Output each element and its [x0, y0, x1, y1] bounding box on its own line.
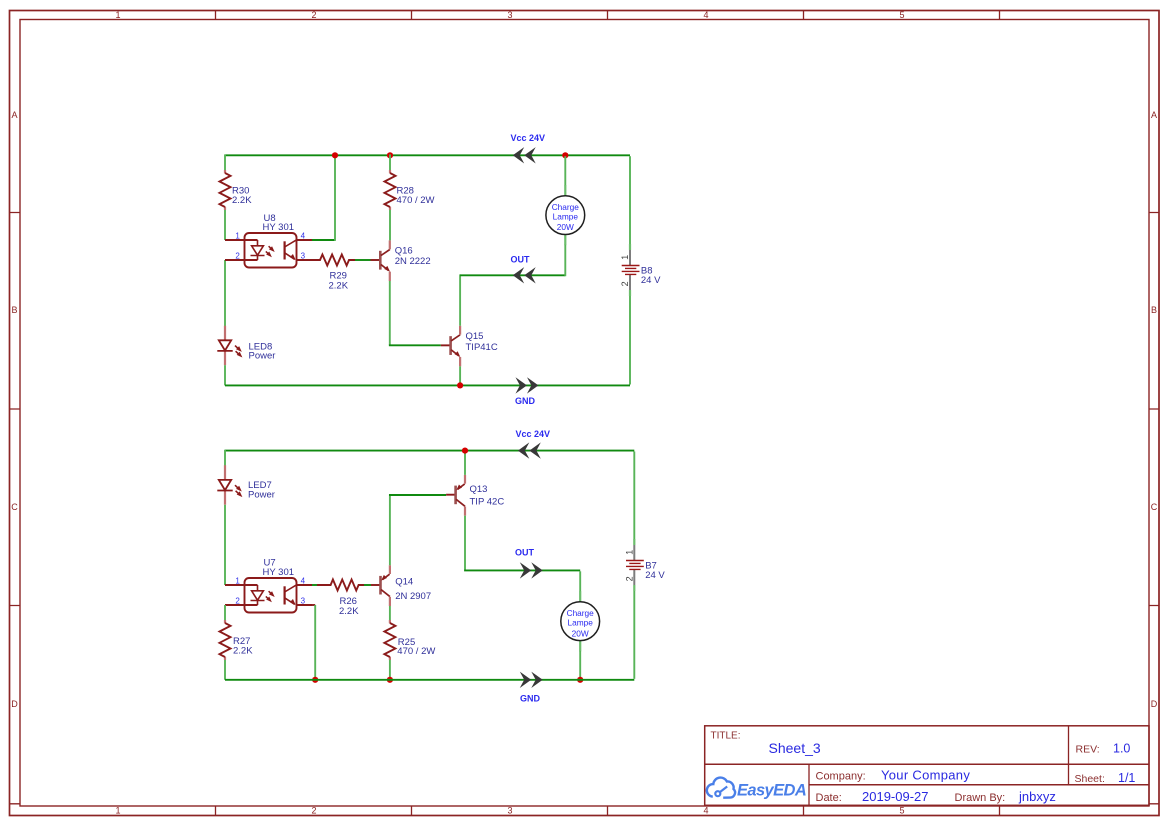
- label Q13 TIP 42C: [470, 484, 505, 507]
- resistor R29: [297, 255, 356, 266]
- transistor Q16 2N 2222: [371, 240, 391, 281]
- svg-text:24 V: 24 V: [645, 570, 665, 581]
- svg-text:Sheet_3: Sheet_3: [769, 740, 821, 756]
- wire node OUT horizontal: [460, 274, 565, 276]
- lamp Charge Lampe 20W: [546, 185, 585, 245]
- wire U7 pin3 branch: [312, 605, 315, 680]
- label U7 HY 301: [263, 558, 295, 579]
- svg-text:HY 301: HY 301: [263, 222, 295, 233]
- svg-text:2: 2: [311, 806, 316, 816]
- svg-text:Vcc 24V: Vcc 24V: [516, 429, 551, 439]
- battery B7: [625, 545, 644, 585]
- value label R25 470 / 2W: [397, 637, 435, 657]
- junction R28 rail: [387, 152, 393, 158]
- wire Q13 emitter to rail: [464, 450, 466, 475]
- wire stub light green bottom B8: [629, 290, 631, 296]
- junction lamp rail: [577, 677, 583, 683]
- wire LED7 to U7 pin1: [224, 505, 226, 585]
- svg-text:Vcc 24V: Vcc 24V: [511, 133, 546, 143]
- svg-text:Lampe: Lampe: [553, 212, 579, 222]
- junction pin4 rail: [332, 152, 338, 158]
- svg-text:1.0: 1.0: [1113, 742, 1130, 756]
- net flag OUT: [511, 254, 536, 283]
- svg-text:20W: 20W: [557, 222, 574, 232]
- svg-text:OUT: OUT: [515, 548, 535, 558]
- svg-text:Q15: Q15: [466, 331, 484, 342]
- wire Q14 collector to R25: [389, 606, 391, 620]
- svg-text:C: C: [1151, 502, 1158, 512]
- label LED8 Power: [249, 342, 276, 362]
- svg-text:24 V: 24 V: [641, 275, 661, 286]
- svg-text:Lampe: Lampe: [568, 618, 594, 628]
- net flag Vcc 24V (bottom): [516, 429, 551, 459]
- resistor R26: [317, 580, 364, 591]
- label Q14 2N 2907: [395, 576, 431, 602]
- wire U7 pin4 to R26: [312, 584, 317, 586]
- svg-text:B: B: [11, 305, 17, 315]
- wire lamp to OUT: [564, 245, 566, 276]
- wire Q13 collector to OUT: [464, 516, 580, 571]
- svg-text:TIP41C: TIP41C: [466, 342, 498, 353]
- lamp Charge Lampe 20W (bottom): [561, 591, 600, 651]
- svg-text:1: 1: [115, 806, 120, 816]
- title block: [705, 726, 1149, 806]
- net flag GND (bottom): [520, 672, 543, 704]
- svg-text:GND: GND: [520, 694, 541, 704]
- LED LED7 Power: [217, 465, 242, 505]
- svg-text:2.2K: 2.2K: [232, 195, 252, 206]
- label Charge Lampe 20W (bottom): [567, 608, 595, 638]
- resistor R27: [220, 620, 231, 660]
- svg-text:2.2K: 2.2K: [233, 645, 253, 656]
- net flag OUT (bottom): [515, 548, 543, 579]
- junction pin3 rail: [312, 677, 318, 683]
- svg-text:Date:: Date:: [816, 792, 842, 804]
- svg-text:2.2K: 2.2K: [329, 281, 349, 292]
- svg-text:Drawn By:: Drawn By:: [955, 792, 1006, 804]
- svg-text:3: 3: [507, 10, 512, 20]
- wire R30 to U8 pin1: [224, 210, 226, 240]
- wire U7 pin2 to R27: [224, 605, 226, 620]
- svg-text:2N 2222: 2N 2222: [395, 256, 431, 267]
- svg-text:Q14: Q14: [395, 576, 413, 587]
- wire LED8 to bottom rail: [224, 365, 226, 385]
- svg-text:Sheet:: Sheet:: [1075, 773, 1105, 785]
- wire lamp to bottom rail: [579, 651, 581, 679]
- wire Vcc top rail: [225, 154, 630, 156]
- svg-text:Q13: Q13: [470, 484, 488, 495]
- svg-text:3: 3: [507, 806, 512, 816]
- wire R29 to Q16 base: [355, 259, 371, 261]
- value label R26 2.2K: [339, 596, 359, 617]
- junction R25 rail: [387, 677, 393, 683]
- svg-text:Power: Power: [249, 351, 276, 362]
- junction Q15 emitter rail: [457, 382, 463, 388]
- svg-text:4: 4: [703, 806, 708, 816]
- svg-text:1/1: 1/1: [1118, 771, 1135, 785]
- svg-text:470 / 2W: 470 / 2W: [397, 195, 435, 206]
- value label R30 2.2K: [232, 186, 252, 206]
- wire R27 to bottom rail: [224, 660, 226, 680]
- wire rail to battery B7: [633, 452, 635, 540]
- LED LED8 Power: [217, 326, 242, 366]
- svg-text:20W: 20W: [572, 628, 589, 638]
- transistor Q15 TIP41C: [441, 326, 461, 367]
- wire rail to LED7: [224, 450, 226, 466]
- junction Q13 rail: [462, 448, 468, 454]
- EasyEDA logo: [707, 778, 806, 800]
- wire rail to battery B8: [629, 156, 631, 244]
- svg-text:jnbxyz: jnbxyz: [1018, 789, 1056, 804]
- wire rail to R28: [389, 154, 391, 170]
- svg-text:5: 5: [899, 10, 904, 20]
- wire Vcc top rail (bottom circuit): [225, 450, 634, 452]
- net flag GND: [515, 377, 538, 406]
- label U8 HY 301: [263, 213, 295, 233]
- label LED7 Power: [248, 480, 275, 500]
- svg-text:Company:: Company:: [816, 771, 866, 783]
- wire GND bottom rail (bottom circuit): [225, 679, 634, 681]
- wire stub light green top B7: [633, 539, 635, 545]
- label Charge Lampe 20W: [552, 202, 580, 232]
- svg-text:GND: GND: [515, 396, 536, 406]
- wire left branch upper: [224, 154, 226, 170]
- svg-text:5: 5: [899, 806, 904, 816]
- svg-text:1: 1: [115, 10, 120, 20]
- svg-text:TIP 42C: TIP 42C: [470, 497, 505, 508]
- battery B8: [620, 250, 639, 290]
- value label R28 470 / 2W: [397, 186, 435, 206]
- svg-text:TITLE:: TITLE:: [711, 731, 741, 742]
- svg-text:HY 301: HY 301: [263, 567, 295, 578]
- svg-text:2: 2: [311, 10, 316, 20]
- value label R27 2.2K: [233, 636, 253, 657]
- svg-text:C: C: [11, 502, 18, 512]
- label Q15 TIP41C: [466, 331, 498, 353]
- op-amp U7 optocoupler HY 301: [225, 576, 312, 612]
- net flag Vcc 24V: [511, 133, 546, 164]
- wire battery B7 to bottom rail: [633, 591, 635, 679]
- wire OUT to lamp: [579, 571, 581, 591]
- svg-text:A: A: [11, 110, 17, 120]
- wire rail to lamp: [564, 156, 566, 185]
- wire R26 to Q14 base: [364, 584, 371, 586]
- resistor R30: [220, 170, 231, 210]
- svg-text:Charge: Charge: [567, 608, 595, 618]
- wire GND bottom rail: [225, 384, 630, 386]
- svg-text:2N 2907: 2N 2907: [395, 591, 431, 602]
- svg-text:EasyEDA: EasyEDA: [737, 782, 806, 800]
- transistor Q13 TIP 42C: [446, 475, 465, 516]
- wire battery to bottom rail: [629, 296, 631, 385]
- wire Q15 collector to OUT corner: [459, 274, 461, 325]
- svg-text:D: D: [11, 699, 18, 709]
- value label R29 2.2K: [329, 271, 349, 292]
- transistor Q14 2N 2907: [371, 565, 390, 606]
- op-amp U8 optocoupler HY 301: [225, 231, 312, 267]
- wire U8 pin2 to LED8: [224, 260, 226, 326]
- svg-text:OUT: OUT: [511, 254, 531, 264]
- svg-text:Your Company: Your Company: [881, 768, 970, 783]
- svg-text:Power: Power: [248, 489, 275, 500]
- svg-text:B: B: [1151, 305, 1157, 315]
- wire U8 pin4 to top rail: [312, 155, 335, 241]
- wire Q15 emitter to rail: [459, 366, 461, 385]
- svg-text:470 / 2W: 470 / 2W: [397, 646, 435, 657]
- svg-text:Q16: Q16: [395, 246, 413, 257]
- wire Q16 emitter to Q15 base: [389, 281, 441, 345]
- wire R25 to bottom rail: [389, 660, 391, 679]
- resistor R28: [385, 170, 396, 210]
- wire stub light green bottom B7: [633, 585, 635, 591]
- wire R28 to Q16 collector: [389, 210, 391, 240]
- label Q16 2N 2222: [395, 246, 431, 267]
- wire Q14 emitter to Q13 base: [389, 494, 446, 565]
- junction lamp rail: [562, 152, 568, 158]
- wire stub light green top B8: [629, 244, 631, 250]
- svg-text:2019-09-27: 2019-09-27: [862, 789, 929, 804]
- label B7 24 V: [645, 560, 665, 581]
- label B8 24 V: [641, 265, 661, 286]
- svg-text:Charge: Charge: [552, 202, 580, 212]
- svg-text:4: 4: [703, 10, 708, 20]
- svg-text:REV:: REV:: [1076, 744, 1100, 756]
- resistor R25: [384, 620, 395, 660]
- svg-text:D: D: [1151, 699, 1158, 709]
- svg-text:A: A: [1151, 110, 1157, 120]
- svg-text:2.2K: 2.2K: [339, 606, 359, 617]
